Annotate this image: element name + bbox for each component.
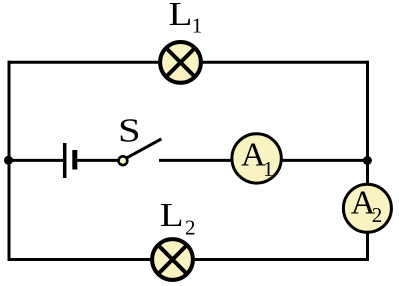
battery long plate: [63, 143, 67, 178]
switch lever: [127, 139, 162, 158]
ammeter A2: [343, 184, 391, 232]
battery short plate: [72, 150, 77, 170]
svg-text:2: 2: [185, 216, 196, 240]
svg-text:L: L: [160, 196, 184, 234]
svg-text:S: S: [118, 113, 141, 150]
svg-text:1: 1: [192, 13, 203, 37]
ammeter A1: [232, 134, 281, 183]
wire: right vertical: [366, 61, 369, 261]
svg-text:2: 2: [372, 203, 383, 227]
node: right junction: [363, 156, 372, 165]
wire: switch to A1 and on to right junction: [159, 159, 368, 162]
node: left junction: [4, 156, 13, 165]
svg-text:L: L: [169, 0, 193, 32]
switch S pivot circle: [119, 156, 128, 165]
wire: middle left segment to battery: [8, 159, 64, 162]
wire: battery to switch: [75, 159, 119, 162]
wire: bottom horizontal: [8, 258, 370, 261]
svg-text:1: 1: [263, 157, 274, 181]
lamp L2: [152, 239, 193, 280]
lamp L1: [160, 42, 201, 83]
label L2: [160, 196, 196, 240]
wire: top horizontal: [8, 61, 370, 64]
wire: left vertical: [8, 61, 11, 261]
label L1: [169, 0, 203, 37]
